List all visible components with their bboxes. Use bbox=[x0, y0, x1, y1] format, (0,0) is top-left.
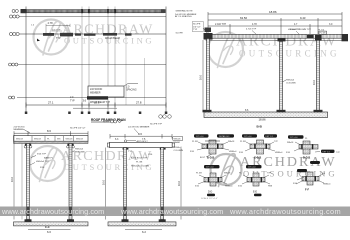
svg-text:18.86: 18.86 bbox=[259, 118, 266, 122]
svg-text:W8x18: W8x18 bbox=[34, 139, 42, 141]
svg-text:4.7x6 TYP: 4.7x6 TYP bbox=[246, 29, 257, 31]
svg-text:6.2: 6.2 bbox=[142, 230, 146, 234]
svg-text:HSS4x4: HSS4x4 bbox=[275, 152, 283, 154]
plan vertical grid line 3 bbox=[88, 7, 90, 113]
svg-text:W8x18: W8x18 bbox=[66, 139, 74, 141]
plan grid bubbles row B bbox=[9, 15, 19, 18]
svg-text:TYP: TYP bbox=[193, 29, 198, 31]
svg-text:COLUMN: COLUMN bbox=[174, 150, 184, 152]
watermark 3 logo ring (bottom-left frames) bbox=[30, 146, 65, 182]
plan secondary dim line bbox=[73, 107, 117, 109]
svg-text:HSS4x4: HSS4x4 bbox=[225, 186, 233, 188]
svg-text:18.6: 18.6 bbox=[94, 101, 100, 105]
svg-text:OUTSOURCING: OUTSOURCING bbox=[239, 49, 340, 59]
watermark 4 logo ring (details, darker) bbox=[211, 154, 242, 187]
watermark 1 logo ring (top-left plan) bbox=[34, 20, 69, 56]
watermark 2 logo ring (top-right elevation) bbox=[208, 32, 243, 68]
plan vertical grid line 1 bbox=[25, 7, 27, 113]
svg-text:SPACING: SPACING bbox=[126, 89, 137, 92]
svg-text:W8x18: W8x18 bbox=[224, 173, 231, 175]
frame2 right annotations bbox=[174, 139, 184, 152]
frame2 base plates bbox=[122, 219, 166, 222]
frame1 column bolts bbox=[25, 144, 74, 146]
plan anchor symbol bbox=[37, 39, 40, 42]
footer gray bar bbox=[0, 207, 350, 217]
plan annotation blobs along grid line C bbox=[43, 33, 132, 37]
svg-text:1/2"=1-0: 1/2"=1-0 bbox=[244, 136, 252, 138]
svg-text:PL 3/8: PL 3/8 bbox=[136, 162, 143, 164]
frame2 bolt circle on beam bbox=[124, 140, 126, 142]
frame1 base plates bbox=[25, 219, 75, 222]
frame2 dim line bbox=[110, 134, 172, 139]
detail D6 drawing bbox=[293, 172, 331, 186]
detail D1 drawing bbox=[190, 140, 237, 159]
svg-text:2.0x6 TYP: 2.0x6 TYP bbox=[215, 23, 227, 26]
svg-text:DET D-1: DET D-1 bbox=[323, 151, 332, 153]
svg-text:3/16 TYP: 3/16 TYP bbox=[37, 154, 47, 156]
svg-text:SCALE 1/2"=1-0": SCALE 1/2"=1-0" bbox=[201, 197, 218, 200]
svg-text:6.0: 6.0 bbox=[47, 230, 51, 234]
plan horizontal grid line C bbox=[19, 33, 166, 35]
elevation base plates bbox=[203, 110, 323, 112]
plan vertical grid line 6 (right border) bbox=[165, 7, 167, 113]
svg-text:DETAIL B-1: DETAIL B-1 bbox=[219, 135, 230, 138]
plan vertical grid line 2 bbox=[81, 7, 83, 113]
svg-text:HSS4x4: HSS4x4 bbox=[323, 184, 331, 186]
detail D3 drawing bbox=[286, 138, 341, 154]
svg-text:SLOPE TYP: SLOPE TYP bbox=[150, 124, 163, 126]
svg-text:1/2"=1-0: 1/2"=1-0 bbox=[196, 136, 204, 138]
elevation left vertical dim bbox=[202, 40, 204, 113]
plan beam band dark right end bbox=[161, 9, 166, 13]
frame1 hatch band under beam bbox=[14, 141, 88, 143]
frame1 bottom dim bbox=[28, 229, 71, 231]
plan beam band column ticks bbox=[81, 9, 116, 13]
svg-text:MEMBER: MEMBER bbox=[90, 91, 101, 94]
svg-text:HSS4x4 TYP: HSS4x4 TYP bbox=[36, 161, 49, 163]
detail D6 pills bbox=[297, 169, 307, 172]
frame1 column 1 bbox=[27, 144, 30, 220]
plan horizontal grid line B bbox=[19, 16, 166, 18]
frame2 column top caps bbox=[123, 148, 166, 150]
plan bottom dimension line bbox=[26, 103, 166, 108]
frame2 right vertical dim bbox=[180, 148, 182, 220]
frame1 ground strip bbox=[14, 222, 89, 226]
plan vertical grid line 4 bbox=[107, 7, 109, 113]
svg-text:W8x18: W8x18 bbox=[16, 139, 24, 141]
svg-text:8.6: 8.6 bbox=[47, 129, 51, 133]
svg-text:D-D: D-D bbox=[208, 190, 213, 193]
svg-text:1/2"=1-0: 1/2"=1-0 bbox=[290, 137, 298, 139]
svg-text:F-F: F-F bbox=[305, 188, 309, 192]
frame1 beam rectangle with cells bbox=[14, 136, 88, 142]
svg-text:www.archdrawoutsourcing.com: www.archdrawoutsourcing.com bbox=[229, 207, 341, 216]
svg-text:SLOPE 1/4":12": SLOPE 1/4":12" bbox=[70, 127, 86, 129]
svg-text:NOTE: NOTE bbox=[103, 122, 110, 124]
svg-text:HSS4x4: HSS4x4 bbox=[75, 149, 84, 151]
svg-text:D-D.B: D-D.B bbox=[303, 156, 310, 160]
elevation beam left end dark cap bbox=[204, 33, 213, 40]
plan horizontal grid line E bbox=[17, 97, 166, 99]
svg-text:10.0: 10.0 bbox=[199, 74, 203, 80]
frame2 beam end tabs bbox=[107, 143, 109, 147]
svg-text:C-D.B: C-D.B bbox=[254, 156, 261, 160]
svg-text:4.78: 4.78 bbox=[252, 23, 257, 26]
elevation column 2 annotation bbox=[283, 80, 287, 82]
detail D5 scale text bbox=[254, 194, 262, 197]
svg-text:1/2"=1-0: 1/2"=1-0 bbox=[206, 167, 214, 169]
svg-text:B-D.B: B-D.B bbox=[207, 156, 214, 160]
svg-text:BOLT: BOLT bbox=[200, 157, 206, 159]
svg-text:HSS4x4 COLUMN TYP: HSS4x4 COLUMN TYP bbox=[288, 29, 311, 31]
svg-text:BASE PL: BASE PL bbox=[44, 157, 54, 160]
detail D4 scale pill bbox=[207, 194, 215, 197]
plan grid bubbles row D bbox=[9, 63, 18, 66]
plan vertical grid line 5 bbox=[114, 7, 116, 113]
svg-text:W8x18: W8x18 bbox=[76, 139, 84, 141]
svg-text:2x6 WOOD MEMBER: 2x6 WOOD MEMBER bbox=[128, 127, 150, 129]
elevation top dim line 1 bbox=[208, 12, 342, 35]
plan detail rect leader bbox=[124, 84, 138, 87]
plan beam band dark left end bbox=[21, 9, 27, 13]
plan detail rectangle bbox=[88, 86, 124, 97]
svg-text:SLOPE: SLOPE bbox=[176, 33, 184, 35]
detail D2 drawing bbox=[239, 140, 283, 154]
svg-text:A325 BOLT: A325 BOLT bbox=[137, 140, 149, 143]
plan caption circle bbox=[118, 119, 121, 122]
svg-text:3.6: 3.6 bbox=[83, 99, 87, 103]
detail D4 drawing bbox=[195, 173, 233, 188]
svg-text:COLUMN: COLUMN bbox=[286, 82, 296, 84]
frame1 column 2 bbox=[69, 144, 72, 220]
svg-text:HSS: HSS bbox=[268, 186, 273, 188]
svg-text:HSS4x4: HSS4x4 bbox=[286, 80, 295, 82]
svg-text:2x6 WOOD: 2x6 WOOD bbox=[14, 127, 26, 129]
svg-text:B-B: B-B bbox=[257, 125, 263, 129]
plan bottom column markers bbox=[25, 112, 168, 115]
svg-text:PL 3/8: PL 3/8 bbox=[240, 141, 247, 143]
svg-text:W8x18 BEAM: W8x18 BEAM bbox=[105, 37, 120, 40]
frame1 dim line bbox=[14, 131, 88, 136]
svg-text:4.78: 4.78 bbox=[48, 21, 54, 25]
detail D4 pill bbox=[204, 165, 220, 168]
svg-text:W8x18: W8x18 bbox=[228, 141, 235, 143]
detail D3 pills bbox=[288, 135, 304, 138]
svg-text:PL 3/8: PL 3/8 bbox=[192, 141, 199, 143]
svg-text:1/4":12": 1/4":12" bbox=[193, 26, 201, 28]
elevation beam hatched band bbox=[206, 34, 346, 38]
frame2 bottom dim bbox=[125, 229, 162, 231]
frame2 left vertical dim bbox=[105, 148, 107, 220]
plan horizontal grid line D bbox=[18, 64, 166, 66]
svg-text:www.archdrawoutsourcing.com: www.archdrawoutsourcing.com bbox=[1, 207, 104, 216]
svg-text:10.0: 10.0 bbox=[177, 180, 181, 186]
plan grid bubbles row C bbox=[9, 32, 19, 35]
svg-text:TYP: TYP bbox=[274, 141, 279, 143]
svg-text:SLOPE: SLOPE bbox=[193, 24, 201, 26]
svg-text:TYP: TYP bbox=[70, 99, 75, 102]
plan detail dark bar under rect bbox=[87, 96, 108, 99]
elevation ground strip bbox=[204, 112, 328, 118]
frame2 beam rectangle bbox=[109, 142, 172, 147]
svg-text:C-C: C-C bbox=[45, 225, 50, 229]
plan grid bubbles row E bbox=[9, 96, 15, 99]
svg-text:TYP: TYP bbox=[128, 151, 133, 153]
detail D5 drawing bbox=[238, 173, 273, 188]
frame2 column 1 bbox=[124, 148, 127, 220]
frame2 column 2 bbox=[161, 148, 164, 220]
elevation column 3 bbox=[317, 40, 320, 112]
elevation beam right end dark cap bbox=[342, 34, 349, 41]
svg-text:1/2"=1-0: 1/2"=1-0 bbox=[248, 167, 256, 169]
svg-text:TYP: TYP bbox=[267, 173, 272, 175]
svg-text:BEAM: BEAM bbox=[174, 141, 180, 144]
svg-text:COLUMN: COLUMN bbox=[75, 151, 85, 153]
svg-text:PL 3/8: PL 3/8 bbox=[196, 173, 203, 175]
svg-text:10.0: 10.0 bbox=[102, 179, 106, 185]
svg-text:GENERAL NOTE: GENERAL NOTE bbox=[176, 10, 194, 13]
svg-text:27.8: 27.8 bbox=[136, 101, 142, 105]
svg-text:MEMBER: MEMBER bbox=[14, 129, 24, 131]
svg-text:HSS4x4 COLUMN: HSS4x4 COLUMN bbox=[131, 166, 150, 168]
detail D2 pills bbox=[242, 134, 257, 137]
svg-text:PL 1/4: PL 1/4 bbox=[318, 29, 325, 31]
svg-text:HSS4x4: HSS4x4 bbox=[229, 151, 237, 153]
svg-text:18.86: 18.86 bbox=[269, 10, 277, 14]
detail D1 pills bbox=[194, 134, 209, 137]
elevation column top marks bbox=[278, 35, 322, 41]
plan extension line x126 bbox=[125, 27, 127, 105]
svg-text:TYP: TYP bbox=[336, 152, 341, 154]
elevation column 2 bbox=[280, 41, 283, 112]
plan grid bubbles row A bbox=[12, 10, 18, 13]
frame1 beam cell texts bbox=[16, 139, 84, 141]
svg-text:www.archdrawoutsourcing.com: www.archdrawoutsourcing.com bbox=[120, 207, 223, 216]
svg-text:AT 2.0 SPACING: AT 2.0 SPACING bbox=[175, 15, 192, 18]
svg-text:PL 3/8: PL 3/8 bbox=[320, 33, 327, 35]
svg-text:10.0: 10.0 bbox=[312, 79, 316, 85]
frame2 ground strip bbox=[108, 222, 176, 226]
detail D5 pill bbox=[246, 165, 262, 168]
svg-text:27.1: 27.1 bbox=[48, 101, 54, 105]
svg-text:DET C-1: DET C-1 bbox=[266, 136, 275, 138]
svg-text:TYP: TYP bbox=[56, 37, 61, 40]
plan extension line x145 bbox=[144, 58, 146, 105]
svg-text:W8x18: W8x18 bbox=[287, 142, 294, 144]
svg-text:A325 BOLT TYP: A325 BOLT TYP bbox=[131, 157, 148, 160]
svg-text:63.56: 63.56 bbox=[240, 16, 247, 20]
plan bottom-right grid bubbles bbox=[159, 115, 172, 119]
svg-text:8.6: 8.6 bbox=[138, 132, 142, 136]
elevation beam splice plate bbox=[307, 35, 314, 38]
svg-text:E-E: E-E bbox=[253, 190, 257, 193]
svg-text:9.43: 9.43 bbox=[300, 16, 306, 20]
elevation column 1 bbox=[207, 39, 210, 113]
elevation slope leader box bbox=[192, 22, 203, 32]
plan top beam hatched band bbox=[22, 10, 164, 13]
svg-text:10.0: 10.0 bbox=[10, 176, 14, 182]
footer column lines crossing bar bbox=[26, 207, 164, 217]
frame1 left vertical dim bbox=[13, 135, 15, 220]
